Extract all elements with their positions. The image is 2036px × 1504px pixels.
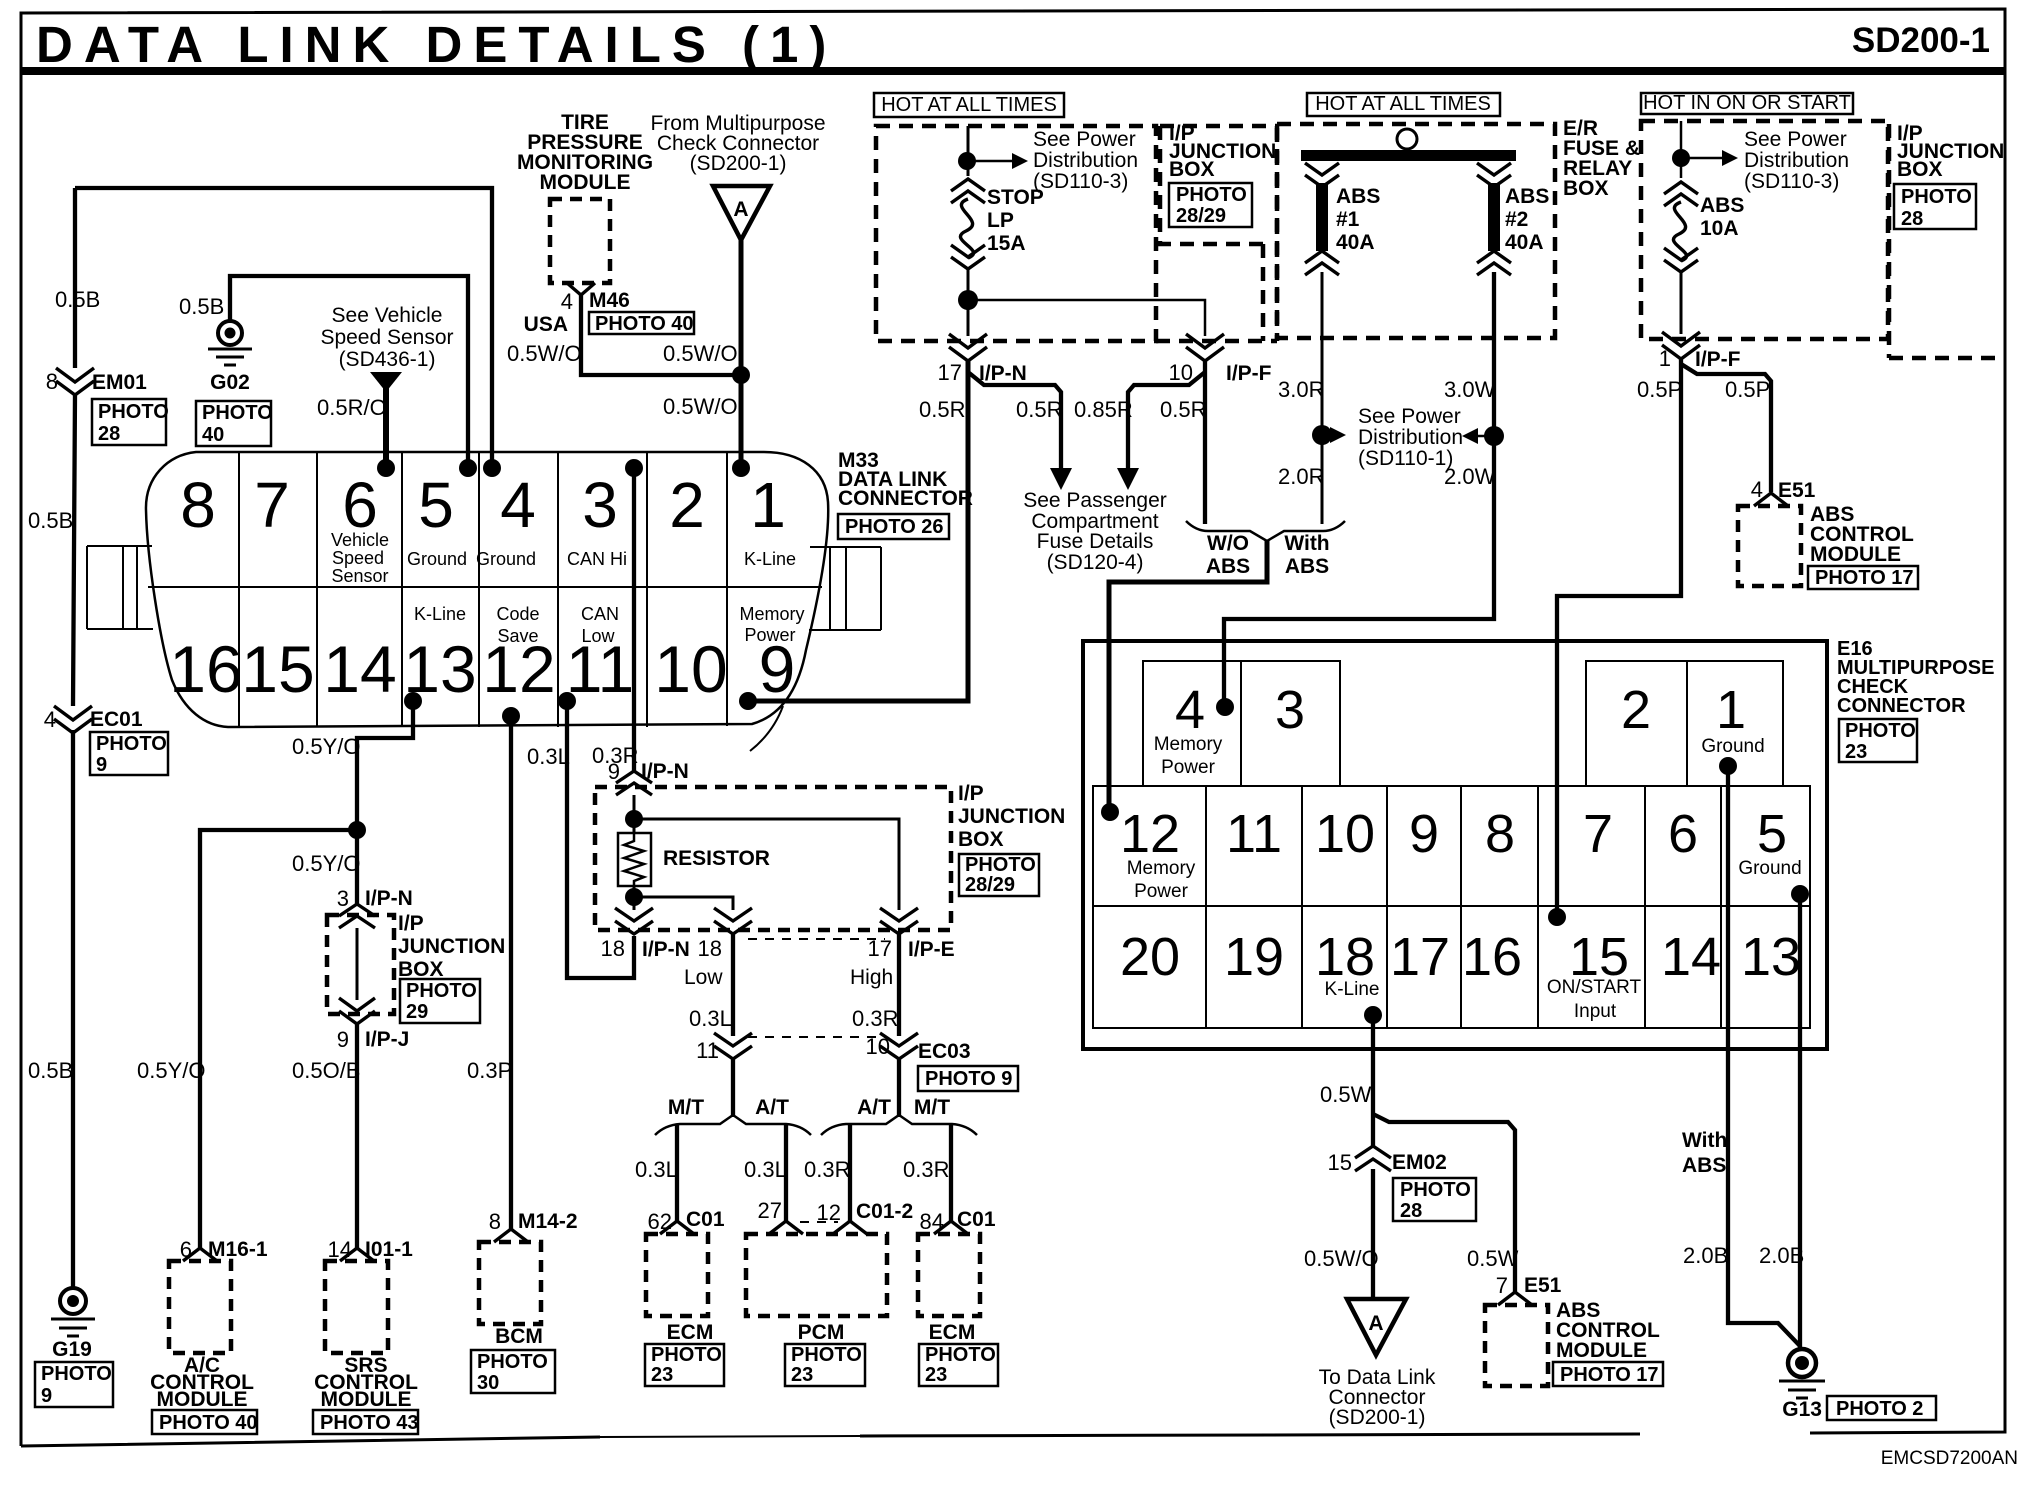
svg-text:CAN: CAN <box>581 604 619 624</box>
svg-text:BOX: BOX <box>1169 158 1215 181</box>
svg-text:0.5R: 0.5R <box>919 397 965 422</box>
E16 middle row numbers <box>1120 804 1787 864</box>
svg-text:10A: 10A <box>1700 217 1739 240</box>
svg-text:4: 4 <box>1751 477 1763 502</box>
svg-text:ABS: ABS <box>1285 555 1329 578</box>
ECM PHOTO 23 box (right) <box>919 1344 998 1386</box>
text With ABS <box>1284 532 1329 578</box>
svg-text:17: 17 <box>938 360 962 385</box>
svg-text:15A: 15A <box>987 232 1026 255</box>
wire M46 to junction <box>581 295 741 375</box>
ABS PHOTO 17 box (bottom) <box>1553 1362 1663 1386</box>
svg-text:MODULE: MODULE <box>540 171 631 194</box>
wire ABS#2 3.0W down to E16 pin 4 <box>1224 272 1494 707</box>
connector C01-2 27 chevron <box>769 1221 803 1234</box>
wire 0.5B left trunk from top to G19 <box>73 188 75 1288</box>
M46 PHOTO 40 box <box>589 312 694 335</box>
junction dot SD110-1 right <box>1484 426 1504 446</box>
svg-text:I/P-F: I/P-F <box>1695 348 1741 371</box>
arrow down (0.85R branch) <box>1117 468 1139 490</box>
svg-text:E51: E51 <box>1778 479 1816 502</box>
svg-text:G13: G13 <box>1782 1398 1822 1421</box>
junction dot A/M46 <box>732 366 750 384</box>
wire branch to A/C control module <box>200 830 357 1249</box>
svg-text:1: 1 <box>750 469 786 541</box>
ABS PHOTO 17 box (middle right) <box>1808 566 1918 589</box>
wire branch 0.5R to passenger fuse details <box>968 372 1061 470</box>
svg-text:MODULE: MODULE <box>1556 1339 1647 1362</box>
svg-text:#2: #2 <box>1505 208 1528 231</box>
text ABS CONTROL MODULE (bottom) <box>1556 1299 1660 1362</box>
svg-text:0.3L: 0.3L <box>635 1157 678 1182</box>
svg-text:PHOTO 43: PHOTO 43 <box>320 1412 419 1434</box>
svg-text:0.5B: 0.5B <box>179 294 224 319</box>
svg-text:62: 62 <box>648 1209 672 1234</box>
svg-text:PHOTO 2: PHOTO 2 <box>1836 1398 1923 1420</box>
svg-text:0.5P: 0.5P <box>1725 377 1770 402</box>
junction dot SD110-1 left <box>1312 425 1332 445</box>
svg-text:ECM: ECM <box>929 1321 976 1344</box>
svg-text:3.0R: 3.0R <box>1278 377 1324 402</box>
svg-text:CAN Hi: CAN Hi <box>567 549 627 569</box>
svg-text:A: A <box>733 198 748 221</box>
svg-text:0.5W/O: 0.5W/O <box>663 394 738 419</box>
connector 9 I/P-N chevron <box>616 771 652 795</box>
svg-text:I01-1: I01-1 <box>365 1238 413 1261</box>
svg-text:ECM: ECM <box>667 1321 714 1344</box>
wire M33 pin 12 Code Save to BCM <box>509 716 513 1230</box>
off-page connector triangle A (to data link connector) <box>1347 1299 1406 1355</box>
svg-text:4: 4 <box>500 469 536 541</box>
busbar <box>1301 150 1516 161</box>
wire resistor top to 17 I/P-E exit <box>634 819 899 910</box>
svg-text:PHOTO 9: PHOTO 9 <box>925 1068 1012 1090</box>
text ABS CONTROL MODULE (middle right) <box>1810 503 1914 566</box>
wire ABS 10A feed <box>1680 121 1683 178</box>
PCM PHOTO 23 box <box>785 1344 865 1386</box>
svg-text:11: 11 <box>1226 804 1282 864</box>
svg-text:Ground: Ground <box>1738 858 1801 879</box>
svg-text:0.5W/O: 0.5W/O <box>1304 1246 1379 1271</box>
svg-text:High: High <box>850 966 893 989</box>
svg-text:16: 16 <box>169 632 242 706</box>
EC03 PHOTO 9 box <box>918 1066 1018 1091</box>
split bracket M/T-A/T (left) <box>655 1115 811 1135</box>
text ABS #1 40A <box>1336 185 1380 254</box>
wire fuse feed top <box>967 126 970 176</box>
svg-text:9: 9 <box>608 759 620 784</box>
svg-text:2.0W: 2.0W <box>1444 464 1496 489</box>
svg-text:C01: C01 <box>686 1208 725 1231</box>
M33 pin dots <box>377 459 757 725</box>
svg-text:Ground: Ground <box>1701 736 1764 757</box>
svg-text:M16-1: M16-1 <box>208 1238 268 1261</box>
text To Data Link Connector (SD200-1) <box>1319 1366 1436 1429</box>
svg-text:K-Line: K-Line <box>414 604 466 624</box>
module box SRS control module <box>325 1261 388 1353</box>
E16 pin 1 number and label Ground <box>1701 680 1764 757</box>
connector EM01 chevron <box>56 368 94 395</box>
M33 pin 11 label CAN Low <box>581 604 619 646</box>
wire EM02 down to triangle A <box>1371 1169 1375 1297</box>
connector M33 data link connector body <box>146 452 828 751</box>
svg-text:See Passenger: See Passenger <box>1023 489 1167 512</box>
svg-text:Distribution: Distribution <box>1033 149 1138 172</box>
text I/P JUNCTION BOX (left) <box>398 912 505 981</box>
wire branch 0.85R to passenger fuse details <box>1128 372 1205 470</box>
svg-text:6: 6 <box>1668 804 1698 864</box>
svg-text:0.5W: 0.5W <box>1320 1082 1372 1107</box>
wire M/T 0.3R to ECM <box>949 1124 953 1222</box>
svg-text:0.5Y/O: 0.5Y/O <box>292 734 360 759</box>
E16 bottom row cells <box>1093 906 1810 1028</box>
svg-text:9: 9 <box>1409 804 1439 864</box>
junction dot pin13 branch <box>348 821 366 839</box>
svg-text:18: 18 <box>1315 927 1375 987</box>
svg-text:Ground: Ground <box>407 549 467 569</box>
wire E16 pin 1 ground to G13 <box>1728 766 1800 1346</box>
wire 0.5O/B to SRS module <box>355 1022 359 1249</box>
wire Low 0.3L down to EC03 11 <box>731 934 735 1036</box>
svg-text:Sensor: Sensor <box>331 566 388 586</box>
junction box I/P with resistor (PHOTO 28/29) <box>595 787 951 930</box>
E16 pin 15 label ON/START Input <box>1547 977 1642 1022</box>
svg-text:I/P-N: I/P-N <box>642 938 690 961</box>
svg-text:0.3P: 0.3P <box>467 1058 512 1083</box>
connector M14-2 chevron <box>494 1229 528 1242</box>
svg-text:BOX: BOX <box>958 828 1004 851</box>
svg-text:2: 2 <box>669 469 705 541</box>
svg-text:5: 5 <box>1757 804 1787 864</box>
svg-text:5: 5 <box>418 469 454 541</box>
label box HOT AT ALL TIMES (left) <box>874 93 1064 117</box>
text TIRE PRESSURE MONITORING MODULE <box>517 111 653 194</box>
svg-text:12: 12 <box>1120 804 1180 864</box>
svg-text:A/T: A/T <box>857 1096 891 1119</box>
svg-text:SD200-1: SD200-1 <box>1852 21 1990 60</box>
svg-text:ABS: ABS <box>1336 185 1380 208</box>
text ABS #2 40A <box>1505 185 1549 254</box>
off-page connector triangle A (from multipurpose check connector) <box>713 186 770 240</box>
svg-text:See Power: See Power <box>1358 405 1461 428</box>
svg-text:PHOTO: PHOTO <box>1901 186 1972 208</box>
svg-text:18: 18 <box>698 936 722 961</box>
svg-text:13: 13 <box>1741 927 1801 987</box>
text With ABS (right) <box>1682 1129 1727 1177</box>
dashed box E/R fuse and relay box <box>1277 124 1555 338</box>
svg-text:I/P-E: I/P-E <box>908 938 955 961</box>
svg-text:0.5W: 0.5W <box>1467 1246 1519 1271</box>
svg-text:PHOTO: PHOTO <box>925 1344 996 1366</box>
svg-text:0.5R: 0.5R <box>1016 397 1062 422</box>
connector 3 I/P-N chevron <box>339 904 375 928</box>
svg-text:84: 84 <box>920 1209 944 1234</box>
text A/C CONTROL MODULE <box>150 1354 254 1411</box>
svg-text:30: 30 <box>477 1372 499 1394</box>
svg-text:PHOTO 17: PHOTO 17 <box>1815 567 1914 589</box>
ground G02 <box>196 321 273 446</box>
svg-text:29: 29 <box>406 1001 428 1023</box>
arrow down (0.5R branch) <box>1050 468 1072 490</box>
svg-text:W/O: W/O <box>1207 532 1249 555</box>
text ABS 10A <box>1700 194 1744 240</box>
svg-text:M14-2: M14-2 <box>518 1210 578 1233</box>
svg-text:ON/START: ON/START <box>1547 977 1642 998</box>
connector 18 chevron (middle exit) <box>714 908 752 934</box>
svg-text:PHOTO: PHOTO <box>41 1363 112 1385</box>
svg-text:PHOTO 40: PHOTO 40 <box>159 1412 258 1434</box>
text See Vehicle Speed Sensor <box>320 304 453 371</box>
svg-text:Distribution: Distribution <box>1744 149 1849 172</box>
svg-text:23: 23 <box>791 1364 813 1386</box>
svg-text:0.5B: 0.5B <box>28 508 73 533</box>
svg-text:9: 9 <box>96 754 107 776</box>
wire 0.5R down to M33 pin 9 <box>748 359 968 701</box>
svg-text:0.3L: 0.3L <box>744 1157 787 1182</box>
svg-text:Memory: Memory <box>1154 734 1223 755</box>
svg-text:(SD436-1): (SD436-1) <box>339 348 436 371</box>
svg-text:3: 3 <box>582 469 618 541</box>
wire M/T 0.3L to ECM <box>675 1124 679 1222</box>
wire A/T 0.3L to PCM <box>784 1124 788 1222</box>
svg-text:2: 2 <box>1621 680 1651 740</box>
svg-text:RESISTOR: RESISTOR <box>663 847 770 870</box>
svg-text:0.3R: 0.3R <box>804 1157 850 1182</box>
svg-text:PHOTO: PHOTO <box>1176 184 1247 206</box>
PHOTO 28/29 box (middle) <box>959 854 1039 896</box>
svg-text:EC03: EC03 <box>918 1040 971 1063</box>
svg-text:A/T: A/T <box>755 1096 789 1119</box>
svg-text:Fuse Details: Fuse Details <box>1037 530 1154 553</box>
svg-text:Speed Sensor: Speed Sensor <box>320 326 453 349</box>
wire EC03 11 down to split <box>731 1057 735 1117</box>
svg-text:Speed: Speed <box>332 548 384 568</box>
arrow from vehicle speed sensor <box>370 372 402 392</box>
connector EC01 chevron <box>54 706 92 733</box>
M33 pin 9 label Memory Power <box>739 604 804 645</box>
svg-text:(SD110-1): (SD110-1) <box>1358 447 1453 470</box>
svg-text:Memory: Memory <box>1127 858 1196 879</box>
svg-text:HOT AT ALL TIMES: HOT AT ALL TIMES <box>1315 93 1491 115</box>
svg-text:1: 1 <box>1716 680 1746 740</box>
M33 pin numbers row 2 <box>169 632 795 706</box>
fuse STOP LP 15A <box>951 179 985 269</box>
module box ABS control module (bottom) <box>1485 1305 1548 1386</box>
fuse ABS 10A <box>1664 182 1698 272</box>
svg-text:20: 20 <box>1120 927 1180 987</box>
EC01 PHOTO 9 box <box>90 732 168 776</box>
text See Passenger Compartment Fuse Details <box>1023 489 1167 574</box>
E16 PHOTO 23 box <box>1839 719 1917 763</box>
wire inside box top <box>633 795 636 833</box>
svg-text:See Vehicle: See Vehicle <box>332 304 443 327</box>
svg-text:(SD200-1): (SD200-1) <box>1329 1406 1426 1429</box>
svg-text:M/T: M/T <box>914 1096 950 1119</box>
svg-text:28: 28 <box>98 423 120 445</box>
svg-text:DATA LINK DETAILS (1): DATA LINK DETAILS (1) <box>36 16 837 73</box>
M33 pin 6 label Vehicle Speed Sensor <box>331 530 389 586</box>
module box A/C control module <box>169 1261 231 1353</box>
arrow left from right wire <box>1462 428 1494 444</box>
wire triangle A to M33 pin 1 <box>739 238 744 462</box>
M33 pin 12 label Code Save <box>496 604 539 646</box>
svg-text:G02: G02 <box>210 371 250 394</box>
svg-text:PCM: PCM <box>798 1321 845 1344</box>
svg-text:14: 14 <box>328 1237 352 1262</box>
E16 pin dots <box>1101 698 1809 1024</box>
connector E51 7 chevron <box>1498 1292 1532 1305</box>
svg-text:With: With <box>1682 1129 1727 1152</box>
svg-text:JUNCTION: JUNCTION <box>958 805 1065 828</box>
svg-text:28/29: 28/29 <box>965 874 1015 896</box>
text E16 MULTIPURPOSE CHECK CONNECTOR <box>1837 638 1994 717</box>
svg-text:28: 28 <box>1901 208 1923 230</box>
svg-text:STOP: STOP <box>987 186 1044 209</box>
A/C PHOTO 40 box <box>152 1410 258 1434</box>
svg-text:ABS: ABS <box>1700 194 1744 217</box>
svg-text:0.3L: 0.3L <box>689 1006 732 1031</box>
svg-text:With: With <box>1284 532 1329 555</box>
junction box I/P (top middle, PHOTO 28/29) <box>1156 126 1277 341</box>
text I/P JUNCTION BOX (top middle) <box>1169 122 1276 181</box>
connector M46 chevron <box>567 283 595 295</box>
svg-text:PHOTO: PHOTO <box>202 402 273 424</box>
connector 18 I/P-N chevron (left exit) <box>615 908 653 934</box>
svg-text:USA: USA <box>524 313 568 336</box>
svg-text:C01: C01 <box>957 1208 996 1231</box>
svg-text:17: 17 <box>1390 927 1450 987</box>
svg-text:8: 8 <box>180 469 216 541</box>
junction dot ABS 10A <box>1672 149 1690 167</box>
svg-text:Low: Low <box>684 966 723 989</box>
wire resistor bottom down to 18 exit <box>633 886 636 910</box>
svg-text:A: A <box>1368 1312 1383 1335</box>
svg-text:G19: G19 <box>52 1338 92 1361</box>
svg-text:6: 6 <box>180 1237 192 1262</box>
svg-text:40A: 40A <box>1336 231 1375 254</box>
split bracket A/T-M/T (right) <box>821 1115 977 1135</box>
connector 17 I/P-N chevron <box>949 334 987 361</box>
connector 1 I/P-F chevron <box>1662 332 1700 359</box>
svg-text:Code: Code <box>496 604 539 624</box>
svg-text:ABS: ABS <box>1682 1154 1726 1177</box>
wire branch 0.5P to E51 <box>1681 364 1771 492</box>
connector C01 62 chevron <box>660 1221 694 1234</box>
text I/P JUNCTION BOX (right) <box>1897 122 2004 181</box>
svg-text:PHOTO: PHOTO <box>965 854 1036 876</box>
EM01 PHOTO 28 box <box>92 399 169 445</box>
PHOTO 29 box <box>400 979 480 1023</box>
svg-text:40A: 40A <box>1505 231 1544 254</box>
svg-text:(SD110-3): (SD110-3) <box>1033 170 1128 193</box>
wire memory power feed to E16 pin 12 <box>1109 540 1267 812</box>
wire branch to E51 7 <box>1373 1114 1515 1293</box>
wire EC03 10 down to split <box>897 1057 901 1117</box>
svg-text:Distribution: Distribution <box>1358 426 1463 449</box>
svg-text:PHOTO 26: PHOTO 26 <box>845 516 944 538</box>
connector E16 multipurpose check connector outer box <box>1083 641 1827 1049</box>
wire E16 pin 18 K-line down to EM02 <box>1371 1015 1375 1146</box>
svg-text:11: 11 <box>696 1038 719 1063</box>
junction dot below fuse <box>958 290 978 310</box>
M33 pin numbers row 1 <box>180 469 786 541</box>
svg-text:JUNCTION: JUNCTION <box>398 935 505 958</box>
module box tire pressure monitoring module <box>550 199 610 283</box>
svg-text:0.85R: 0.85R <box>1074 397 1133 422</box>
svg-text:10: 10 <box>1169 360 1193 385</box>
E16 top cells 2-1 <box>1586 661 1783 786</box>
svg-text:I/P-N: I/P-N <box>641 760 689 783</box>
svg-text:15: 15 <box>241 632 314 706</box>
fuse ABS #2 40A <box>1477 163 1511 275</box>
svg-text:4: 4 <box>561 289 573 314</box>
svg-text:EMCSD7200AN: EMCSD7200AN <box>1881 1448 2018 1469</box>
svg-text:Input: Input <box>1574 1001 1617 1022</box>
svg-text:K-Line: K-Line <box>744 549 796 569</box>
svg-text:7: 7 <box>254 469 290 541</box>
E16 top cells 4-3 <box>1143 661 1340 786</box>
svg-text:PHOTO: PHOTO <box>477 1351 548 1373</box>
busbar ring terminal <box>1397 129 1417 149</box>
svg-text:PHOTO: PHOTO <box>791 1344 862 1366</box>
E16 pin 12 label Memory Power <box>1127 858 1196 902</box>
svg-text:1: 1 <box>1659 346 1671 371</box>
svg-text:(SD200-1): (SD200-1) <box>690 152 787 175</box>
arrow right to see power distribution <box>1330 427 1346 443</box>
svg-text:10: 10 <box>1315 804 1375 864</box>
E16 pin 4 number and label <box>1154 680 1223 778</box>
resistor <box>618 833 651 886</box>
svg-text:40: 40 <box>202 424 224 446</box>
svg-text:EC01: EC01 <box>90 708 143 731</box>
module box ECM (right) <box>918 1234 980 1316</box>
text SRS CONTROL MODULE <box>314 1354 418 1411</box>
svg-text:14: 14 <box>1661 927 1721 987</box>
arrow see power distribution SD110-3 (right) <box>1681 150 1738 166</box>
wire ABS#1 3.0R down <box>1321 272 1324 524</box>
svg-text:(SD110-3): (SD110-3) <box>1744 170 1839 193</box>
svg-text:2.0B: 2.0B <box>1759 1243 1804 1268</box>
module box PCM <box>746 1234 887 1316</box>
PHOTO 28/29 box (top middle) <box>1169 183 1252 227</box>
wire M33 pin 13 K-Line down <box>357 701 413 904</box>
connector M16-1 chevron <box>183 1248 217 1261</box>
connector C01 84 chevron <box>934 1221 968 1234</box>
text See Power Distribution (SD110-1) <box>1358 405 1463 470</box>
BCM PHOTO 30 box <box>471 1350 555 1394</box>
svg-text:Ground: Ground <box>476 549 536 569</box>
svg-text:I/P: I/P <box>398 912 424 935</box>
svg-text:23: 23 <box>651 1364 673 1386</box>
svg-text:4: 4 <box>1175 680 1205 740</box>
svg-text:Power: Power <box>1134 881 1189 902</box>
module box ECM (left) <box>646 1234 708 1316</box>
junction box I/P (right, PHOTO 28) <box>1889 124 2003 358</box>
junction dot resistor top <box>625 810 643 828</box>
svg-text:14: 14 <box>323 632 396 706</box>
svg-text:0.3L: 0.3L <box>527 744 570 769</box>
svg-text:CONNECTOR: CONNECTOR <box>1837 695 1966 717</box>
svg-text:PHOTO 40: PHOTO 40 <box>595 313 694 335</box>
svg-text:MODULE: MODULE <box>321 1388 412 1411</box>
svg-text:Power: Power <box>744 625 795 645</box>
junction dot stop fuse <box>958 152 976 170</box>
svg-text:ABS: ABS <box>1206 555 1250 578</box>
svg-text:K-Line: K-Line <box>1325 979 1380 1000</box>
svg-text:EM02: EM02 <box>1392 1151 1447 1174</box>
merge bracket W/O ABS / With ABS <box>1186 521 1345 541</box>
svg-text:Low: Low <box>581 626 615 646</box>
